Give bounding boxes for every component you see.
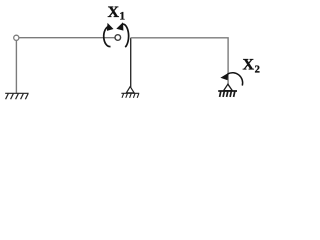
moment arrow X1 right arc (123, 24, 129, 47)
wire: middle column (dark) (130, 38, 132, 87)
moment arrow X1 left arc (104, 26, 111, 46)
ground (right support) (218, 91, 237, 97)
ground (middle support) (121, 93, 139, 98)
svg-text:1: 1 (119, 11, 125, 23)
svg-text:X: X (243, 57, 255, 74)
svg-text:2: 2 (255, 65, 260, 76)
wire: right frame beam and right column (130, 38, 228, 85)
moment arrow X1 left arrowhead (107, 23, 114, 31)
svg-text:X: X (108, 4, 120, 21)
left hinge circle (pin at top of left column) (14, 35, 19, 40)
right pin support triangle (224, 84, 233, 90)
middle pin support triangle (126, 87, 134, 93)
moment arrow X1 right arrowhead (116, 22, 123, 30)
wire: left horizontal beam (19, 37, 115, 39)
moment arrow X2 arc (228, 73, 243, 86)
node: release hinge circle at X1 (115, 35, 121, 41)
ground (left fixed support) (5, 93, 28, 99)
moment arrow X2 arrowhead (220, 73, 228, 80)
wire: left vertical column (15, 41, 17, 93)
